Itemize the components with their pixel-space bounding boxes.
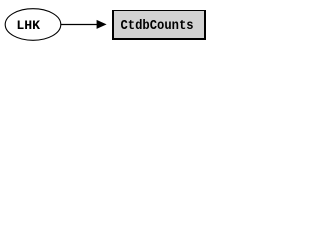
arrowhead <box>97 20 107 29</box>
box border bottom <box>112 38 206 40</box>
svg-text:CtdbCounts: CtdbCounts <box>120 17 193 33</box>
wire edge LHK->CtdbCounts <box>61 24 98 26</box>
box border left <box>112 10 114 40</box>
node CtdbCounts (box fill) <box>112 10 206 40</box>
node LHK (ellipse) <box>5 9 61 41</box>
svg-text:LHK: LHK <box>16 18 40 33</box>
box border right <box>204 10 206 40</box>
box border top <box>112 10 206 11</box>
